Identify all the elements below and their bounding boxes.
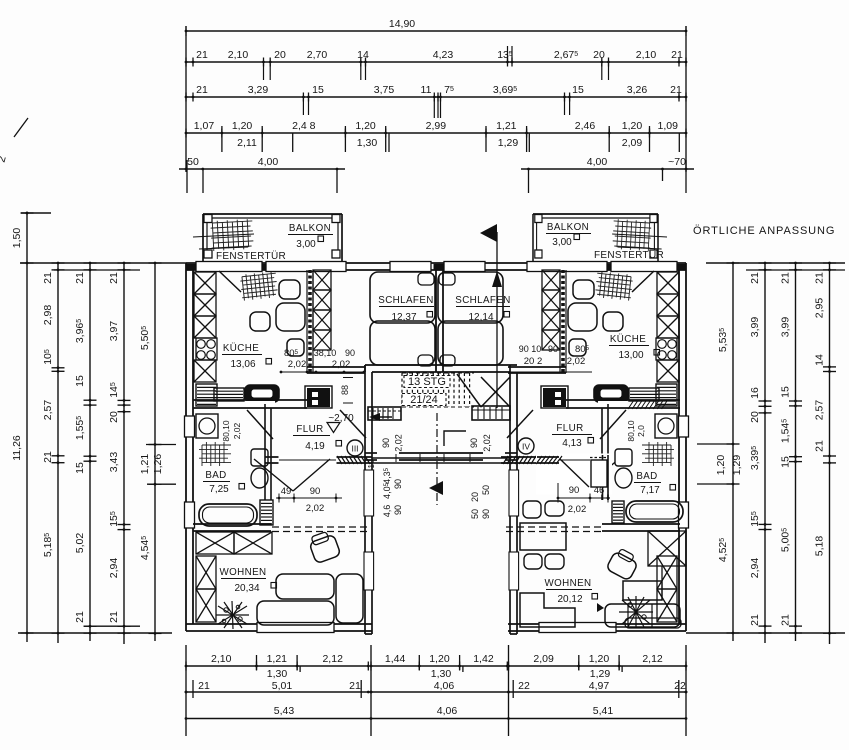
svg-text:21: 21 — [671, 49, 683, 61]
svg-text:20,34: 20,34 — [234, 583, 259, 594]
svg-text:2,02: 2,02 — [567, 356, 586, 367]
svg-text:1,21: 1,21 — [496, 120, 517, 132]
svg-text:2,12: 2,12 — [322, 653, 343, 665]
svg-text:90: 90 — [548, 344, 558, 354]
svg-text:2,46: 2,46 — [575, 120, 596, 132]
svg-text:FLUR: FLUR — [556, 423, 583, 434]
svg-text:1,09: 1,09 — [658, 120, 679, 132]
svg-text:12,37: 12,37 — [391, 312, 416, 323]
svg-text:1,20: 1,20 — [355, 120, 376, 132]
svg-text:21: 21 — [749, 272, 761, 284]
svg-text:21: 21 — [74, 272, 86, 284]
svg-text:3,99: 3,99 — [780, 317, 792, 338]
svg-text:1,44: 1,44 — [385, 653, 406, 665]
svg-text:4,00: 4,00 — [258, 156, 279, 168]
svg-text:2,11: 2,11 — [237, 137, 257, 149]
svg-text:90: 90 — [393, 479, 403, 489]
svg-text:1,26: 1,26 — [152, 454, 164, 475]
svg-text:11: 11 — [421, 84, 432, 96]
svg-text:15: 15 — [780, 386, 792, 398]
svg-text:5,41: 5,41 — [593, 705, 614, 717]
svg-text:21/24: 21/24 — [410, 394, 438, 406]
svg-text:1,30: 1,30 — [357, 137, 378, 149]
svg-text:3,75: 3,75 — [374, 84, 395, 96]
svg-text:2,94: 2,94 — [108, 558, 120, 579]
svg-text:1,20: 1,20 — [232, 120, 253, 132]
svg-text:2,10: 2,10 — [636, 49, 657, 61]
svg-text:1,20: 1,20 — [589, 653, 610, 665]
svg-text:20 2: 20 2 — [524, 356, 543, 367]
svg-text:50: 50 — [470, 509, 480, 519]
svg-text:SCHLAFEN: SCHLAFEN — [455, 295, 510, 306]
svg-text:21: 21 — [349, 680, 361, 692]
svg-text:15: 15 — [74, 462, 86, 474]
svg-text:90: 90 — [469, 438, 479, 448]
svg-text:90: 90 — [345, 348, 355, 358]
svg-text:IV: IV — [522, 442, 530, 452]
svg-text:1,07: 1,07 — [194, 120, 215, 132]
svg-text:4,06: 4,06 — [437, 705, 458, 717]
svg-text:90: 90 — [569, 485, 580, 496]
svg-text:14,90: 14,90 — [389, 18, 415, 30]
svg-text:5,01: 5,01 — [272, 680, 293, 692]
svg-text:2,57: 2,57 — [814, 400, 826, 421]
svg-text:12,14: 12,14 — [468, 312, 493, 323]
svg-text:20: 20 — [108, 411, 120, 423]
svg-text:21: 21 — [42, 451, 54, 463]
svg-text:21: 21 — [42, 272, 54, 284]
svg-text:4,06: 4,06 — [434, 680, 455, 692]
svg-text:WOHNEN: WOHNEN — [544, 578, 591, 589]
svg-text:2,99: 2,99 — [426, 120, 447, 132]
svg-text:2,02: 2,02 — [288, 359, 307, 370]
svg-text:4,97: 4,97 — [589, 680, 610, 692]
svg-text:50: 50 — [481, 485, 491, 495]
svg-text:5,18: 5,18 — [814, 536, 826, 557]
svg-text:BALKON: BALKON — [547, 222, 589, 233]
svg-text:2,02: 2,02 — [332, 359, 351, 370]
svg-text:2,94: 2,94 — [749, 558, 761, 579]
svg-text:90: 90 — [310, 486, 321, 497]
svg-text:BALKON: BALKON — [289, 223, 331, 234]
svg-text:1,29: 1,29 — [498, 137, 519, 149]
svg-text:21: 21 — [814, 440, 826, 452]
svg-text:4,19: 4,19 — [305, 441, 325, 452]
svg-text:2,09: 2,09 — [533, 653, 554, 665]
svg-text:2,0: 2,0 — [636, 425, 646, 437]
svg-text:FENSTERTÜR: FENSTERTÜR — [216, 250, 286, 262]
svg-text:5,02: 5,02 — [74, 533, 86, 554]
svg-text:1,30: 1,30 — [431, 668, 452, 680]
svg-text:2,02: 2,02 — [394, 434, 404, 452]
svg-text:13,06: 13,06 — [230, 359, 255, 370]
svg-text:2,02: 2,02 — [232, 422, 242, 439]
svg-text:21: 21 — [814, 272, 826, 284]
svg-text:3,43: 3,43 — [108, 452, 120, 473]
svg-text:BAD: BAD — [205, 470, 226, 481]
svg-text:13,00: 13,00 — [618, 350, 643, 361]
svg-text:FLUR: FLUR — [296, 424, 323, 435]
svg-text:21: 21 — [74, 611, 86, 623]
svg-text:3,00: 3,00 — [552, 237, 572, 248]
svg-text:90: 90 — [393, 505, 403, 515]
svg-text:KÜCHE: KÜCHE — [610, 334, 646, 345]
svg-text:20: 20 — [749, 411, 761, 423]
svg-text:90 10: 90 10 — [519, 344, 542, 354]
svg-text:21: 21 — [196, 84, 208, 96]
svg-text:2,09: 2,09 — [622, 137, 643, 149]
svg-text:2,57: 2,57 — [42, 400, 54, 421]
svg-text:15: 15 — [74, 375, 86, 387]
svg-text:21: 21 — [749, 614, 761, 626]
svg-text:5,43: 5,43 — [274, 705, 295, 717]
svg-text:15: 15 — [572, 84, 584, 96]
svg-text:1,29: 1,29 — [590, 668, 611, 680]
svg-text:7,25: 7,25 — [209, 484, 229, 495]
svg-text:15: 15 — [312, 84, 324, 96]
svg-text:III: III — [351, 444, 358, 454]
svg-text:KÜCHE: KÜCHE — [223, 343, 259, 354]
svg-text:2,02: 2,02 — [568, 504, 587, 515]
svg-text:FENSTERTÜR: FENSTERTÜR — [594, 249, 664, 261]
svg-text:2,02: 2,02 — [306, 503, 325, 514]
svg-text:2,02: 2,02 — [482, 434, 492, 452]
svg-text:1,50: 1,50 — [11, 228, 23, 249]
svg-text:3,99: 3,99 — [749, 317, 761, 338]
svg-text:20: 20 — [274, 49, 286, 61]
svg-text:2,10: 2,10 — [211, 653, 232, 665]
svg-text:WOHNEN: WOHNEN — [219, 567, 266, 578]
svg-text:20: 20 — [593, 49, 605, 61]
svg-text:14: 14 — [357, 49, 369, 61]
svg-text:1,21: 1,21 — [267, 653, 288, 665]
svg-text:46: 46 — [594, 485, 605, 496]
svg-text:~70: ~70 — [668, 156, 686, 168]
svg-text:SCHLAFEN: SCHLAFEN — [378, 295, 433, 306]
svg-text:20: 20 — [470, 492, 480, 502]
svg-text:21: 21 — [198, 680, 210, 692]
svg-text:21: 21 — [196, 49, 208, 61]
svg-text:21: 21 — [108, 611, 120, 623]
svg-text:1,30: 1,30 — [267, 668, 288, 680]
svg-text:2,70: 2,70 — [307, 49, 328, 61]
svg-text:15: 15 — [780, 456, 792, 468]
svg-text:1,20: 1,20 — [429, 653, 450, 665]
svg-text:90: 90 — [481, 509, 491, 519]
svg-text:21: 21 — [780, 272, 792, 284]
svg-text:21: 21 — [108, 272, 120, 284]
svg-text:4,23: 4,23 — [433, 49, 454, 61]
svg-text:22: 22 — [518, 680, 530, 692]
svg-text:2,95: 2,95 — [814, 298, 826, 319]
svg-text:2,12: 2,12 — [642, 653, 663, 665]
svg-text:80,10: 80,10 — [221, 420, 231, 442]
svg-text:2,98: 2,98 — [42, 305, 54, 326]
svg-text:21: 21 — [670, 84, 682, 96]
svg-text:80,10: 80,10 — [626, 420, 636, 442]
svg-text:50: 50 — [187, 156, 199, 168]
svg-text:14: 14 — [814, 354, 826, 366]
svg-text:4,6: 4,6 — [382, 505, 392, 518]
svg-text:1,20: 1,20 — [622, 120, 643, 132]
svg-text:2,10: 2,10 — [228, 49, 249, 61]
svg-text:1,20: 1,20 — [715, 455, 727, 476]
svg-text:13 STG: 13 STG — [408, 376, 446, 388]
svg-text:ÖRTLICHE ANPASSUNG: ÖRTLICHE ANPASSUNG — [693, 225, 835, 237]
svg-text:1,21: 1,21 — [139, 454, 151, 475]
svg-text:4,00: 4,00 — [587, 156, 608, 168]
svg-text:11,26: 11,26 — [11, 435, 23, 461]
svg-text:4,13: 4,13 — [562, 438, 582, 449]
svg-text:3,97: 3,97 — [108, 321, 120, 342]
svg-text:22: 22 — [674, 680, 686, 692]
svg-text:3,26: 3,26 — [627, 84, 648, 96]
svg-text:21: 21 — [780, 614, 792, 626]
svg-text:16: 16 — [749, 387, 761, 399]
svg-text:7,17: 7,17 — [640, 485, 660, 496]
svg-text:2,4 8: 2,4 8 — [292, 120, 316, 132]
svg-text:3,29: 3,29 — [248, 84, 269, 96]
svg-text:1,42: 1,42 — [473, 653, 494, 665]
svg-text:90: 90 — [381, 438, 391, 448]
svg-text:1,29: 1,29 — [731, 455, 743, 476]
svg-text:3,00: 3,00 — [296, 239, 316, 250]
svg-text:20,12: 20,12 — [557, 594, 582, 605]
svg-text:88: 88 — [340, 385, 350, 395]
svg-text:BAD: BAD — [636, 471, 657, 482]
